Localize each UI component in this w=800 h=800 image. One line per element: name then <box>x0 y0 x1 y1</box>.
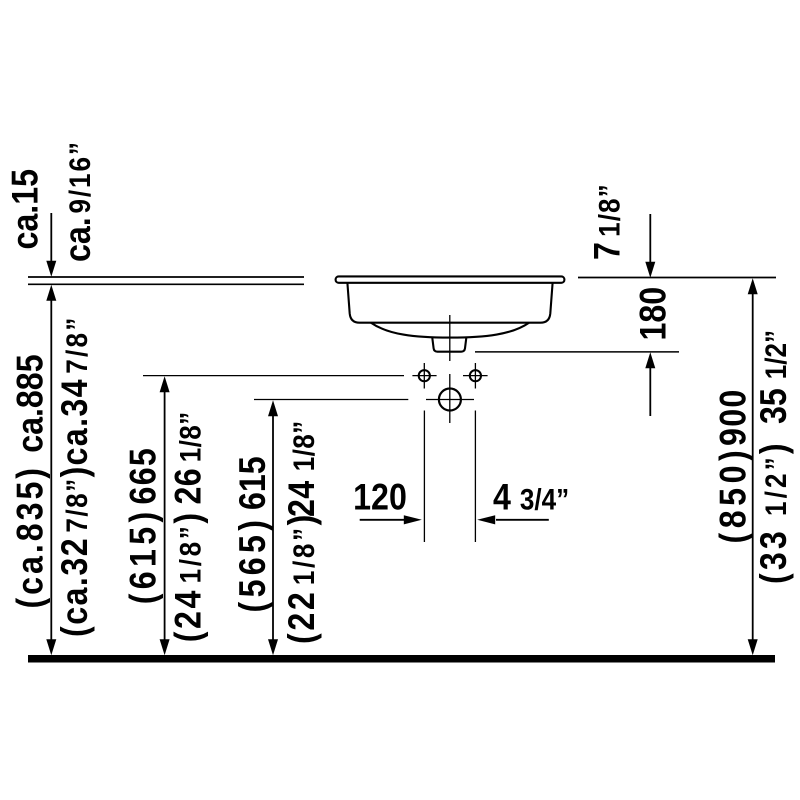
svg-text:ca. 9/16”: ca. 9/16” <box>58 140 99 262</box>
svg-text:ca.885: ca.885 <box>10 354 51 452</box>
svg-text:(615): (615) <box>123 507 164 604</box>
svg-text:(22 1/8”): (22 1/8”) <box>282 512 323 644</box>
svg-text:665: 665 <box>123 447 164 505</box>
svg-text:(850): (850) <box>713 446 754 544</box>
svg-text:ca.15: ca.15 <box>5 169 46 250</box>
svg-text:615: 615 <box>233 456 274 510</box>
svg-text:(ca.835): (ca.835) <box>10 465 51 608</box>
svg-text:4 3/4”: 4 3/4” <box>493 477 569 518</box>
svg-text:(24 1/8”): (24 1/8”) <box>168 510 209 642</box>
svg-text:26 1/8”: 26 1/8” <box>168 411 209 504</box>
svg-text:180: 180 <box>633 287 674 341</box>
svg-text:120: 120 <box>353 477 407 518</box>
svg-text:24 1/8”: 24 1/8” <box>282 421 323 517</box>
svg-text:900: 900 <box>713 388 754 446</box>
svg-text:35 1/2”: 35 1/2” <box>754 330 795 424</box>
svg-text:ca.34 7/8”: ca.34 7/8” <box>55 315 96 465</box>
svg-text:7 1/8”: 7 1/8” <box>587 183 628 260</box>
svg-text:(565): (565) <box>233 516 274 613</box>
svg-text:(ca.32 7/8”): (ca.32 7/8”) <box>55 465 96 637</box>
svg-text:(33 1/2”): (33 1/2”) <box>754 440 795 584</box>
